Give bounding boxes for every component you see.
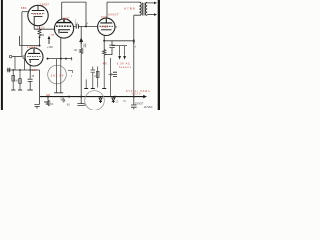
- node coupling junction: [85, 25, 87, 27]
- wire OT secondary top: [147, 2, 155, 4]
- capacitor rail left end: [8, 68, 10, 72]
- chassis foot V4 a: [54, 92, 58, 94]
- node bus 4: [114, 96, 116, 98]
- B+ arrow: [133, 41, 135, 44]
- node V3 cathode rail: [29, 69, 31, 71]
- bus riser to rail: [39, 70, 41, 97]
- chassis foot 1: [11, 89, 15, 91]
- input jack 1: [9, 55, 12, 58]
- svg-text:470: 470: [103, 62, 108, 65]
- bleeder resistor below bus: [46, 97, 49, 106]
- capacitor drop b: [91, 67, 95, 89]
- node link right: [65, 58, 67, 60]
- tube V4 pins top: [56, 59, 60, 93]
- tube V2 envelope: [98, 18, 115, 35]
- svg-text:12AX7: 12AX7: [27, 45, 38, 49]
- node rail junction 1: [12, 69, 14, 71]
- tube V2 plate: [100, 19, 112, 23]
- rectifier tube envelope: [85, 91, 105, 111]
- svg-text:2A3 5V: 2A3 5V: [51, 73, 64, 77]
- node bus 2: [68, 96, 70, 98]
- node bus 1: [47, 96, 49, 98]
- wire OT secondary bottom: [147, 14, 155, 16]
- wire jack1 sleeve down: [14, 57, 16, 71]
- svg-text:12AX7: 12AX7: [40, 2, 49, 6]
- tube V2 cathode: [101, 29, 112, 31]
- resistor to ground 1: [12, 70, 14, 90]
- input jack 2: [23, 56, 26, 59]
- output transformer OT core: [143, 3, 144, 16]
- svg-text:heaters: heaters: [119, 66, 132, 69]
- arrow to cap (gray): [108, 74, 112, 76]
- chassis foot 2: [18, 89, 22, 91]
- svg-text:1M: 1M: [74, 49, 77, 52]
- resistor R plate V1A: [38, 27, 41, 46]
- filter cap below bus left: [34, 97, 39, 109]
- resistor body volume: [80, 48, 83, 54]
- node rail junction 2: [19, 69, 21, 71]
- heater pin mid a: [85, 79, 87, 88]
- pot wiper arrow 2: [80, 39, 83, 44]
- capacitor bypass V2: [104, 41, 115, 55]
- wire V1B cathode down: [60, 38, 62, 59]
- screen drop with cap: [110, 58, 112, 97]
- node bus 5: [133, 96, 135, 98]
- svg-text:6AQ5: 6AQ5: [101, 26, 108, 29]
- node plate resistor top: [39, 36, 41, 38]
- svg-text:6V6: 6V6: [101, 16, 107, 19]
- wire top run right to OT: [107, 1, 139, 3]
- wire heater feed: [112, 45, 127, 47]
- rectifier diode 1: [99, 97, 102, 103]
- node link mid: [60, 58, 62, 60]
- coupling wire to V2: [73, 25, 98, 27]
- wire heater drop 2: [124, 46, 126, 56]
- tube V1B plate: [57, 20, 72, 23]
- svg-text:115: 115: [46, 94, 51, 97]
- svg-text:1M: 1M: [14, 80, 17, 83]
- heater arrow 2: [123, 56, 126, 60]
- resistor drop c: [97, 67, 99, 88]
- filter cap below B+: [131, 97, 137, 110]
- svg-text:1M: 1M: [41, 34, 44, 37]
- tube V1A plate: [32, 6, 44, 11]
- wire V1B plate riser: [61, 2, 63, 19]
- wire OT primary bottom to B+: [134, 15, 140, 96]
- svg-text:vol: vol: [51, 34, 55, 37]
- wire heater drop 1: [119, 46, 121, 56]
- node cathode junction: [103, 40, 105, 42]
- tube V3 plate: [28, 49, 40, 54]
- svg-text:117VAC: 117VAC: [144, 106, 153, 109]
- tube V2 grid: [100, 25, 114, 27]
- node feed junction: [39, 45, 41, 47]
- wire V2 cathode: [103, 35, 105, 41]
- svg-text:5K: 5K: [50, 103, 53, 106]
- wire cathode to B+ line: [104, 40, 134, 42]
- tube V3 envelope: [25, 48, 43, 66]
- tube V1B cathode: [58, 30, 70, 34]
- capacitor cathode bypass V3: [28, 70, 33, 90]
- tube V4 envelope: [48, 65, 67, 84]
- wire drop to coupling node: [85, 2, 87, 26]
- capacitor C coupling: [76, 24, 78, 28]
- output transformer OT primary: [139, 2, 141, 15]
- wire top run left: [62, 1, 86, 3]
- wire V1A grid stub: [22, 11, 29, 13]
- svg-text:1.5K: 1.5K: [32, 69, 37, 72]
- svg-text:12AX7: 12AX7: [62, 16, 70, 20]
- wire grid feed vertical: [21, 12, 23, 57]
- foot mid c: [102, 88, 106, 90]
- svg-text:6V6GT: 6V6GT: [108, 12, 119, 16]
- rectifier diode 2: [112, 97, 115, 103]
- volume pot vertical: [80, 26, 82, 96]
- heater arrow 1: [118, 56, 121, 60]
- resistor to ground 2: [19, 70, 21, 90]
- output transformer OT secondary: [145, 3, 147, 16]
- chassis foot 3: [27, 89, 32, 91]
- wire V3 cathode down: [29, 65, 31, 70]
- stub right with tick: [66, 57, 72, 60]
- right border strip: [158, 0, 160, 110]
- wire jack to grid line: [12, 56, 22, 58]
- small symbol below bus: [63, 99, 65, 103]
- tube V1B grid: [56, 25, 72, 27]
- small bar: [44, 101, 47, 103]
- svg-text:5Y3 or 5AR4: 5Y3 or 5AR4: [126, 89, 150, 93]
- wire V4 top link: [48, 58, 67, 60]
- left border strip: [1, 0, 3, 110]
- tube V1A grid: [31, 12, 45, 14]
- polarized cap plates: [113, 72, 117, 76]
- foot mid b: [91, 88, 95, 90]
- terminal arrow speaker +: [154, 2, 157, 5]
- svg-text:12AX7: 12AX7: [33, 13, 44, 16]
- svg-text:8Ω: 8Ω: [67, 104, 70, 107]
- svg-text:68K: 68K: [21, 6, 27, 10]
- power bus: [40, 96, 144, 98]
- ground rail left: [7, 69, 40, 71]
- wire feed horizontal: [20, 36, 40, 46]
- tube V3 grid: [27, 55, 41, 57]
- node bus 3: [80, 96, 82, 98]
- tube V1A envelope: [28, 5, 48, 25]
- pot wiper arrow 1: [48, 38, 50, 44]
- filter cap below bus mid: [77, 97, 84, 106]
- node link left: [47, 58, 49, 60]
- svg-text:+150: +150: [47, 45, 54, 49]
- chassis foot V4 b: [59, 92, 63, 94]
- foot mid a: [84, 88, 88, 90]
- bus end arrow: [143, 95, 147, 98]
- tube V3 cathode: [29, 60, 39, 63]
- terminal arrow speaker -: [154, 13, 157, 16]
- small mark on bus: [61, 98, 65, 100]
- wire jack2 down: [23, 59, 25, 70]
- tube V1A cathode: [34, 17, 43, 27]
- svg-text:A7B8: A7B8: [124, 7, 135, 11]
- cathode chain down: [103, 58, 105, 88]
- wire V2 plate riser: [106, 2, 108, 18]
- bracket right of V4 (gray): [68, 71, 73, 74]
- svg-text:5Y3GT: 5Y3GT: [135, 101, 144, 105]
- tube V1B envelope: [54, 19, 73, 38]
- wire V1A cathode link: [34, 27, 55, 29]
- resistor cathode V2: [103, 41, 106, 58]
